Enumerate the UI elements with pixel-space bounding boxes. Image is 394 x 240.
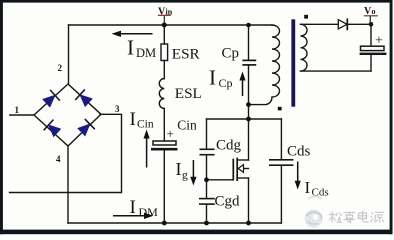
svg-text:Cin: Cin: [177, 118, 197, 133]
svg-text:1: 1: [15, 105, 20, 115]
svg-text:ESL: ESL: [175, 85, 202, 102]
svg-text:DM: DM: [136, 46, 156, 60]
svg-text:3: 3: [115, 104, 120, 114]
svg-text:ESR: ESR: [172, 46, 201, 63]
svg-text:Cp: Cp: [222, 46, 240, 62]
svg-text:I: I: [209, 66, 216, 90]
svg-text:Cgd: Cgd: [215, 193, 241, 209]
svg-text:I: I: [305, 178, 311, 197]
svg-text:Cin: Cin: [137, 119, 154, 131]
svg-text:Cp: Cp: [219, 76, 233, 90]
svg-text:Cds: Cds: [287, 144, 311, 160]
svg-text:2: 2: [58, 63, 63, 73]
svg-text:+: +: [167, 126, 174, 141]
svg-text:+: +: [375, 34, 383, 49]
svg-text:4: 4: [56, 154, 61, 164]
svg-text:I: I: [127, 36, 134, 60]
svg-text:o: o: [372, 7, 376, 16]
svg-text:I: I: [130, 197, 136, 218]
svg-text:DM: DM: [139, 205, 159, 219]
svg-text:g: g: [182, 170, 188, 182]
svg-text:I: I: [130, 109, 136, 130]
svg-text:I: I: [176, 159, 182, 179]
svg-text:Cdg: Cdg: [216, 138, 242, 154]
